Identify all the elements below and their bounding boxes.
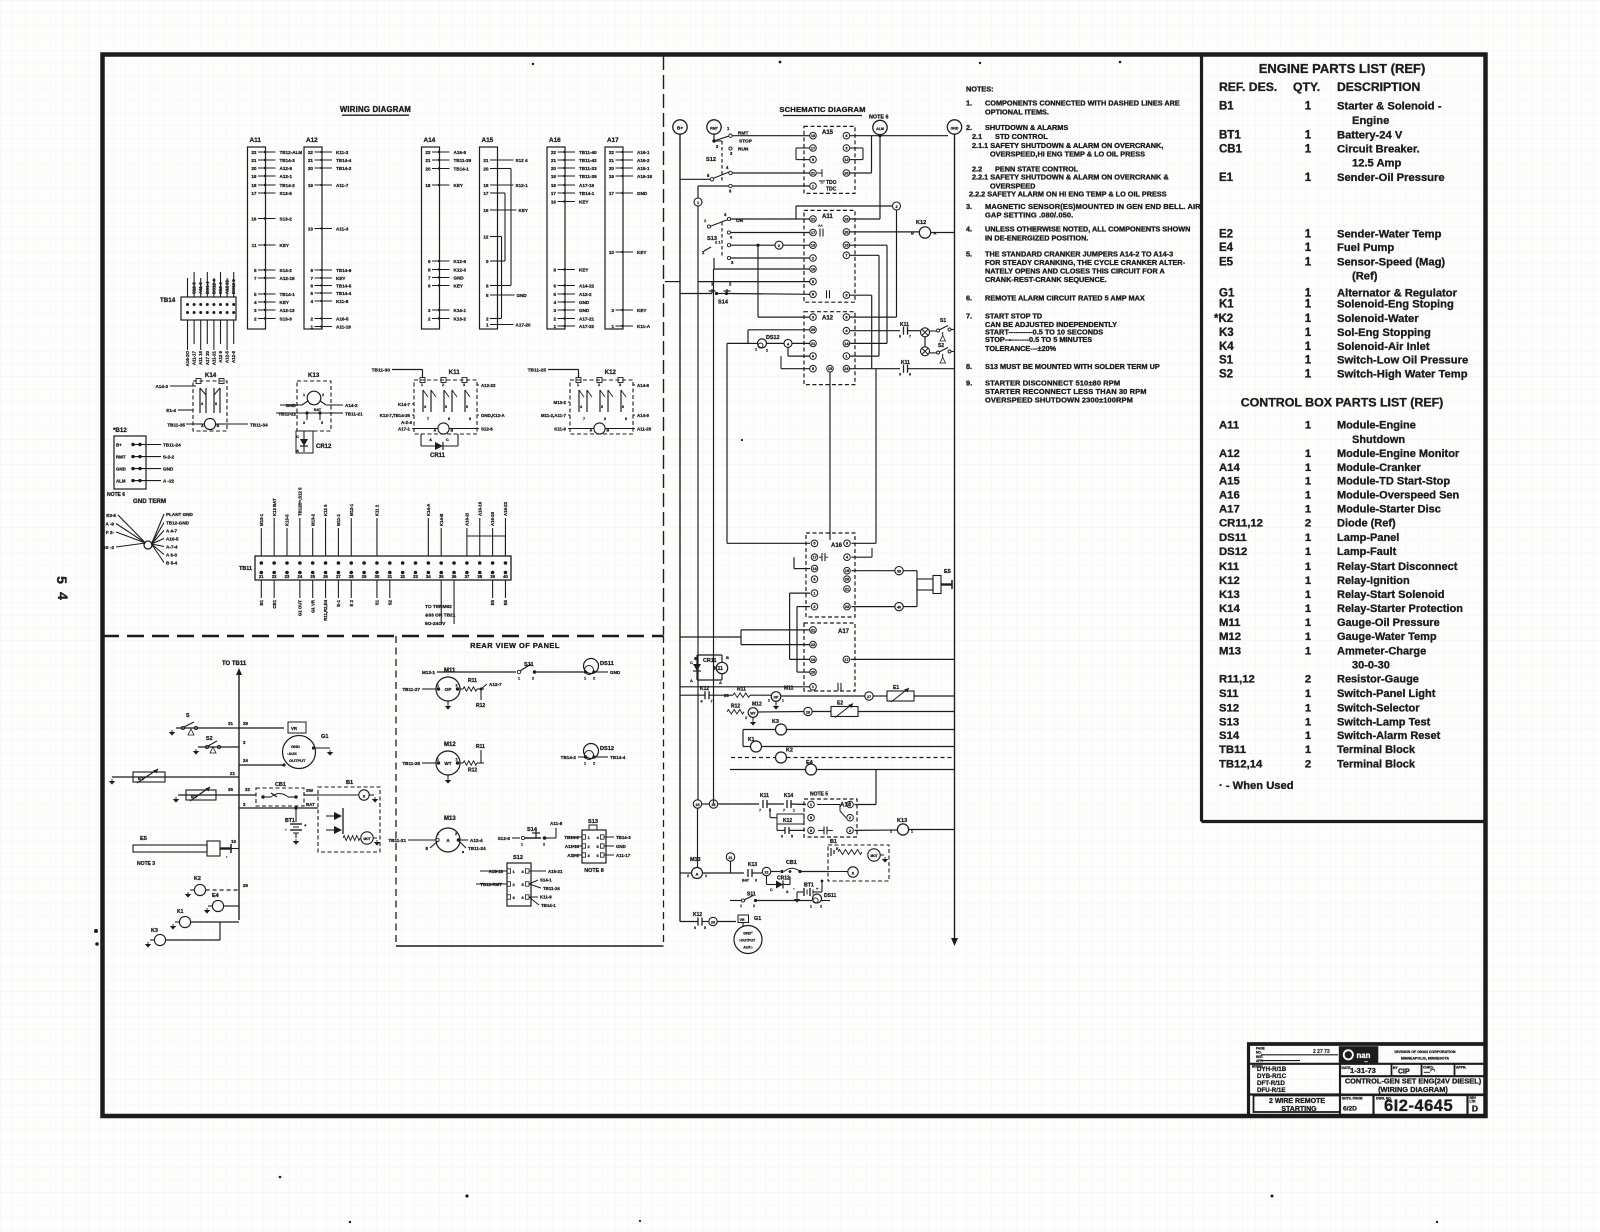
- svg-text:23: 23: [285, 574, 290, 579]
- svg-text:1: 1: [1305, 730, 1311, 742]
- svg-text:R11: R11: [737, 687, 746, 693]
- svg-text:TB11-40: TB11-40: [579, 150, 597, 155]
- svg-text:5: 5: [601, 405, 603, 409]
- svg-text:2: 2: [456, 684, 458, 688]
- svg-text:2: 2: [428, 316, 431, 321]
- svg-text:GND: GND: [579, 300, 590, 305]
- svg-text:G1 VR: G1 VR: [310, 599, 315, 613]
- when used footnote: [1219, 780, 1294, 792]
- wire A11 pin20 to relay K12: [850, 231, 919, 233]
- svg-text:GND: GND: [291, 744, 300, 749]
- svg-text:A15-18: A15-18: [489, 869, 504, 874]
- svg-text:Alternator & Regulator: Alternator & Regulator: [1337, 287, 1458, 299]
- svg-text:TB12-RMT: TB12-RMT: [480, 882, 502, 887]
- svg-text:DS12 2: DS12 2: [231, 279, 236, 294]
- node 39: [852, 567, 918, 575]
- svg-text:E5: E5: [140, 836, 147, 842]
- svg-text:S14: S14: [718, 300, 729, 306]
- svg-text:F 2-: F 2-: [106, 530, 115, 535]
- solenoid K2: [186, 876, 249, 897]
- switch S1 schematic: [930, 318, 955, 341]
- svg-text:Lamp-Panel: Lamp-Panel: [1337, 532, 1399, 544]
- title block bottom row: [1254, 1095, 1479, 1116]
- svg-text:A16-20: A16-20: [490, 511, 495, 526]
- svg-text:1: 1: [521, 843, 523, 847]
- svg-text:TB11-35: TB11-35: [167, 423, 185, 428]
- svg-text:34: 34: [426, 574, 431, 579]
- svg-text:DS -2: DS -2: [102, 545, 114, 550]
- svg-text:R12: R12: [731, 704, 740, 710]
- svg-text:1: 1: [1305, 228, 1312, 240]
- svg-text:S2: S2: [387, 599, 392, 605]
- svg-text:22: 22: [425, 150, 431, 155]
- starter B1: [318, 780, 380, 852]
- svg-text:5.: 5.: [966, 249, 972, 258]
- svg-text:21: 21: [483, 158, 489, 163]
- svg-text:Terminal Block: Terminal Block: [1337, 758, 1416, 770]
- svg-text:K12: K12: [693, 912, 702, 918]
- svg-text:Switch-Selector: Switch-Selector: [1337, 702, 1420, 714]
- svg-text:7: 7: [849, 802, 851, 807]
- svg-text:K12-3: K12-3: [454, 267, 467, 272]
- resistor R11 schematic: [733, 687, 771, 698]
- svg-text:KEY: KEY: [280, 243, 289, 248]
- solenoid K1: [171, 909, 239, 929]
- svg-text:1: 1: [1305, 603, 1311, 615]
- starter B1 schematic: [828, 839, 889, 881]
- svg-text:TB11-24: TB11-24: [163, 443, 181, 448]
- svg-text:2: 2: [1305, 517, 1311, 529]
- switch S12: [476, 855, 563, 908]
- svg-text:A11-17: A11-17: [192, 350, 197, 365]
- switch S11 schematic: [730, 892, 812, 909]
- node 22: [762, 867, 780, 875]
- svg-text:A11-17: A11-17: [616, 853, 631, 858]
- svg-text:A17-21: A17-21: [579, 316, 595, 321]
- svg-text:CB1: CB1: [272, 599, 277, 608]
- svg-text:B 5-4: B 5-4: [166, 561, 178, 566]
- svg-text:20: 20: [844, 170, 848, 175]
- terminal block TB11: [239, 487, 511, 627]
- svg-text:A 6-3: A 6-3: [166, 553, 178, 558]
- svg-text:3.: 3.: [966, 202, 972, 211]
- svg-text:TB14-4: TB14-4: [610, 755, 626, 760]
- svg-text:A14-9: A14-9: [637, 413, 650, 418]
- svg-text:1: 1: [1305, 717, 1311, 729]
- svg-text:S1: S1: [1219, 355, 1234, 367]
- svg-text:26: 26: [323, 574, 328, 579]
- svg-text:K13: K13: [1219, 589, 1240, 601]
- svg-text:7: 7: [711, 700, 713, 704]
- wire A11 pin16 feed: [714, 258, 810, 269]
- svg-text:DFT-R/1D: DFT-R/1D: [1257, 1080, 1285, 1087]
- wire ALM to A11 pin23: [850, 218, 880, 220]
- wire A17 pin21-22 feeds: [680, 630, 810, 645]
- svg-text:S12-8: S12-8: [192, 282, 197, 294]
- svg-text:S14: S14: [1219, 730, 1240, 742]
- svg-text:K12-7,TB14-26: K12-7,TB14-26: [380, 413, 411, 418]
- svg-text:A12: A12: [822, 316, 834, 322]
- svg-text:1: 1: [584, 762, 586, 766]
- svg-text:1: 1: [1305, 702, 1311, 714]
- svg-text:CR11,12: CR11,12: [1219, 517, 1263, 529]
- svg-text:TB14-3: TB14-3: [616, 835, 631, 840]
- svg-text:1: 1: [793, 809, 795, 813]
- svg-text:S14-2: S14-2: [280, 268, 293, 273]
- svg-text:REF. DES.: REF. DES.: [1219, 80, 1277, 94]
- svg-text:2.1: 2.1: [972, 132, 982, 141]
- svg-text:11: 11: [252, 243, 257, 248]
- svg-text:1: 1: [303, 393, 305, 397]
- svg-text:E2: E2: [1219, 228, 1233, 240]
- svg-text:TB14-2: TB14-2: [561, 755, 577, 760]
- svg-text:*B12: *B12: [113, 427, 127, 434]
- svg-text:APPR.: APPR.: [1456, 1066, 1466, 1070]
- svg-text:M12: M12: [444, 742, 456, 748]
- svg-text:DIVISION OF ONAN CORPORATION: DIVISION OF ONAN CORPORATION: [1394, 1050, 1455, 1054]
- svg-text:K12: K12: [700, 686, 709, 692]
- svg-text:1: 1: [1305, 589, 1311, 601]
- ammeter M13: [388, 816, 486, 852]
- svg-text:K1: K1: [177, 909, 184, 915]
- svg-text:K11: K11: [760, 793, 769, 799]
- svg-text:1: 1: [755, 348, 757, 352]
- svg-text:TB11-30: TB11-30: [372, 368, 391, 374]
- svg-text:6: 6: [622, 405, 624, 409]
- svg-text:K11-9: K11-9: [554, 427, 566, 432]
- svg-text:2: 2: [486, 316, 489, 321]
- svg-text:Switch-Low Oil Pressure: Switch-Low Oil Pressure: [1337, 355, 1468, 367]
- wiring diagram title: [340, 105, 411, 115]
- svg-text:6: 6: [553, 283, 556, 288]
- engine parts list rows: [1214, 101, 1468, 381]
- svg-text:9: 9: [428, 259, 431, 264]
- node B+: [673, 120, 687, 134]
- svg-text:A16-1: A16-1: [637, 150, 650, 155]
- svg-text:K14-B: K14-B: [439, 514, 444, 526]
- svg-text:K14-7: K14-7: [398, 402, 411, 407]
- svg-text:A: A: [719, 680, 722, 685]
- svg-text:18: 18: [251, 183, 257, 188]
- svg-text:GND: GND: [116, 467, 126, 472]
- svg-text:6: 6: [466, 405, 468, 409]
- svg-text:3: 3: [899, 373, 901, 377]
- title block company text: [1394, 1050, 1455, 1061]
- svg-text:˄˄: ˄˄: [818, 223, 823, 228]
- svg-text:A14: A14: [424, 137, 436, 144]
- svg-text:S13: S13: [1219, 717, 1239, 729]
- svg-text:A12-1: A12-1: [280, 174, 293, 179]
- bus node-1 vertical: [694, 186, 702, 800]
- svg-text:A: A: [434, 429, 437, 433]
- svg-text:7: 7: [783, 809, 785, 813]
- svg-text:SHUTDOWN & ALARMS: SHUTDOWN & ALARMS: [985, 123, 1068, 132]
- svg-text:G1 OUT: G1 OUT: [297, 600, 302, 616]
- svg-text:B: B: [217, 424, 220, 428]
- svg-text:1: 1: [553, 324, 556, 329]
- node RMT: [707, 120, 721, 134]
- svg-text:27: 27: [336, 574, 341, 579]
- svg-text:ENGINE PARTS LIST (REF): ENGINE PARTS LIST (REF): [1259, 61, 1426, 76]
- svg-text:3: 3: [619, 383, 621, 387]
- svg-text:DESCRIPTION: DESCRIPTION: [1337, 80, 1420, 94]
- svg-text:1: 1: [611, 324, 614, 329]
- svg-text:21: 21: [551, 158, 557, 163]
- svg-text:D: D: [1472, 1104, 1478, 1114]
- contact K13 bat: [742, 862, 762, 883]
- module A16: [806, 533, 855, 617]
- module A17: [804, 623, 855, 691]
- onan logo: [1339, 1046, 1379, 1064]
- svg-text:19: 19: [308, 183, 314, 188]
- svg-text:A: A: [786, 890, 789, 894]
- switch S1: [170, 713, 249, 735]
- svg-text:1: 1: [1305, 575, 1311, 587]
- contact K12 ignition: [680, 873, 709, 930]
- node 24: [693, 800, 701, 868]
- solenoid K1 schematic: [743, 737, 955, 752]
- svg-text:E2: E2: [191, 794, 197, 799]
- svg-text:M13-1: M13-1: [422, 670, 435, 675]
- svg-text:R11,R2,E4: R11,R2,E4: [323, 599, 328, 620]
- svg-text:A17: A17: [607, 137, 619, 144]
- svg-text:A12-18: A12-18: [280, 276, 296, 281]
- svg-text:6/2D: 6/2D: [1343, 1106, 1357, 1113]
- svg-text:Switch-Panel Light: Switch-Panel Light: [1337, 688, 1436, 700]
- module A14 schematic: [804, 792, 857, 838]
- svg-text:Solenoid-Eng Stoping: Solenoid-Eng Stoping: [1337, 299, 1454, 311]
- wire A16 pin18 elbow: [794, 557, 810, 568]
- svg-text:GND: GND: [454, 275, 465, 280]
- svg-text:BT1: BT1: [1219, 129, 1241, 141]
- svg-text:IN DE-ENERGIZED POSITION.: IN DE-ENERGIZED POSITION.: [985, 233, 1088, 242]
- svg-text:1: 1: [1305, 242, 1312, 254]
- resistor R12 schematic: [714, 704, 745, 714]
- relay K14: [155, 372, 268, 431]
- speed sensor E5: [133, 836, 239, 867]
- svg-text:35: 35: [439, 574, 444, 579]
- switch S11: [422, 662, 583, 681]
- svg-text:GND: GND: [517, 293, 528, 298]
- sensor E5 schematic: [917, 569, 952, 607]
- relay K12: [528, 368, 652, 435]
- svg-text:3: 3: [781, 835, 783, 839]
- svg-text:3: 3: [254, 308, 257, 313]
- svg-text:OUTPUT: OUTPUT: [289, 758, 306, 763]
- svg-text:5: 5: [425, 846, 428, 851]
- svg-text:8: 8: [254, 268, 257, 273]
- svg-text:A11-3: A11-3: [336, 226, 349, 231]
- svg-text:SCHEMATIC DIAGRAM: SCHEMATIC DIAGRAM: [779, 105, 865, 114]
- wire A17 pin17 to GND bus: [851, 658, 955, 660]
- svg-text:17: 17: [844, 657, 848, 662]
- svg-text:M12: M12: [752, 702, 762, 708]
- svg-text:E1-4: E1-4: [166, 408, 176, 413]
- node ALM: [869, 115, 888, 220]
- svg-text:MOT: MOT: [870, 854, 877, 858]
- svg-text:REAR VIEW OF PANEL: REAR VIEW OF PANEL: [470, 641, 560, 650]
- svg-text:28: 28: [349, 574, 354, 579]
- svg-text:A: A: [696, 872, 699, 877]
- svg-text:2: 2: [753, 904, 755, 908]
- svg-text:KEY: KEY: [579, 267, 588, 272]
- svg-text:KEY: KEY: [519, 208, 528, 213]
- svg-text:9: 9: [625, 417, 627, 421]
- svg-text:5: 5: [704, 926, 706, 930]
- svg-text:4: 4: [580, 405, 582, 409]
- svg-text:22: 22: [765, 871, 769, 875]
- svg-text:AUX○: AUX○: [743, 946, 753, 950]
- node 26: [702, 800, 759, 808]
- svg-text:5: 5: [486, 293, 489, 298]
- svg-text:DYB-R/1C: DYB-R/1C: [1257, 1073, 1287, 1080]
- svg-text:VR: VR: [291, 726, 298, 731]
- junction lamp S2: [916, 347, 930, 356]
- svg-text:2: 2: [1305, 674, 1311, 686]
- svg-text:4.: 4.: [966, 225, 972, 234]
- svg-text:Resistor-Gauge: Resistor-Gauge: [1337, 674, 1419, 686]
- svg-text:Sol-Eng Stopping: Sol-Eng Stopping: [1337, 327, 1431, 339]
- svg-text:ALM: ALM: [876, 127, 884, 131]
- svg-text:B+: B+: [677, 126, 683, 132]
- svg-text:*K2: *K2: [1214, 313, 1233, 325]
- svg-text:CR11: CR11: [430, 453, 446, 459]
- svg-text:M13: M13: [444, 816, 456, 822]
- svg-text:R11: R11: [468, 678, 477, 684]
- svg-text:WT: WT: [750, 712, 756, 716]
- svg-text:S13-4: S13-4: [218, 282, 223, 294]
- svg-text:5: 5: [791, 835, 793, 839]
- circuit breaker CB1: [256, 782, 318, 806]
- svg-text:K14-1: K14-1: [454, 308, 467, 313]
- svg-text:Sensor-Speed (Mag): Sensor-Speed (Mag): [1337, 257, 1445, 269]
- svg-text:A: A: [690, 678, 693, 683]
- svg-text:CR12: CR12: [316, 444, 332, 450]
- svg-text:26: 26: [228, 787, 233, 792]
- svg-text:A17: A17: [1219, 504, 1240, 516]
- svg-text:TB11: TB11: [1219, 744, 1246, 756]
- svg-text:1: 1: [1305, 489, 1311, 501]
- svg-text:TB14-2: TB14-2: [336, 166, 352, 171]
- svg-text:GND: GND: [951, 127, 959, 131]
- svg-text:E1: E1: [138, 776, 144, 781]
- svg-text:1: 1: [1305, 327, 1312, 339]
- svg-text:1: 1: [486, 322, 489, 327]
- svg-text:1: 1: [1305, 561, 1311, 573]
- svg-text:2: 2: [310, 316, 313, 321]
- svg-text:M11: M11: [444, 668, 456, 674]
- svg-text:E-1: E-1: [336, 599, 341, 606]
- svg-text:6I2-4645: 6I2-4645: [1384, 1097, 1453, 1115]
- svg-text:+: +: [304, 823, 307, 828]
- svg-text:32: 32: [400, 574, 405, 579]
- svg-text:CB1: CB1: [275, 782, 286, 788]
- svg-text:TB14-1: TB14-1: [579, 191, 595, 196]
- svg-text:20: 20: [811, 670, 815, 675]
- svg-text:38: 38: [477, 574, 482, 579]
- svg-text:E5: E5: [1219, 257, 1234, 269]
- svg-text:K3: K3: [1219, 327, 1234, 339]
- svg-text:A: A: [429, 438, 432, 442]
- svg-text:CR11: CR11: [703, 658, 716, 664]
- svg-text:9: 9: [469, 417, 471, 421]
- svg-text:4: 4: [701, 700, 703, 704]
- fuel pump E4 schematic: [730, 760, 955, 775]
- svg-text:5: 5: [445, 405, 447, 409]
- svg-text:A17-22: A17-22: [579, 324, 595, 329]
- svg-text:M13-1: M13-1: [259, 513, 264, 526]
- svg-text:1: 1: [518, 677, 520, 681]
- svg-text:22: 22: [551, 150, 557, 155]
- svg-text:E 2: E 2: [349, 599, 354, 606]
- solenoid K3 schematic: [743, 719, 955, 747]
- svg-text:B1: B1: [1219, 101, 1234, 113]
- svg-text:A15: A15: [822, 130, 834, 136]
- svg-text:31: 31: [228, 721, 233, 726]
- svg-text:A12-5: A12-5: [225, 350, 230, 363]
- control box parts list title: [1241, 396, 1444, 410]
- svg-text:S2: S2: [206, 736, 213, 742]
- battery BT1 schematic: [793, 880, 823, 902]
- svg-text:S12: S12: [513, 855, 523, 861]
- svg-text:1: 1: [1305, 476, 1311, 488]
- svg-text:1: 1: [1305, 369, 1312, 381]
- gauge M12 schematic: [745, 702, 804, 726]
- svg-text:TB14-1: TB14-1: [454, 166, 470, 171]
- svg-text:1: 1: [697, 201, 699, 205]
- svg-text:1: 1: [782, 699, 784, 703]
- svg-text:E2: E2: [837, 701, 843, 707]
- svg-text:DS12: DS12: [600, 746, 614, 752]
- node 21: [726, 853, 734, 873]
- svg-text:22: 22: [272, 574, 277, 579]
- svg-text:TB12,14: TB12,14: [1219, 758, 1263, 770]
- svg-text:18: 18: [425, 183, 431, 188]
- svg-text:TO TB11: TO TB11: [222, 661, 247, 667]
- bus GND vertical: [951, 134, 958, 946]
- svg-text:WT: WT: [444, 761, 451, 766]
- svg-text:1: 1: [421, 383, 423, 387]
- svg-text:6: 6: [428, 283, 431, 288]
- parts list box: [1202, 56, 1487, 822]
- svg-text:K: K: [852, 872, 855, 876]
- svg-text:A -22: A -22: [163, 479, 175, 484]
- svg-text:S: S: [363, 795, 366, 799]
- svg-text:1-31-73: 1-31-73: [1350, 1066, 1376, 1075]
- svg-text:8.: 8.: [966, 362, 972, 371]
- svg-text:1: 1: [1305, 744, 1311, 756]
- switch S14: [498, 821, 563, 847]
- svg-text:5: 5: [321, 421, 323, 425]
- svg-text:K12: K12: [916, 220, 926, 226]
- svg-text:KEY: KEY: [579, 199, 588, 204]
- svg-text:2: 2: [322, 393, 324, 397]
- svg-text:Starter & Solenoid -: Starter & Solenoid -: [1337, 101, 1442, 113]
- svg-text:GND°: GND°: [743, 932, 753, 936]
- svg-text:DS11: DS11: [824, 893, 836, 899]
- svg-text:OP: OP: [445, 687, 452, 692]
- svg-text:E1: E1: [1219, 172, 1234, 184]
- svg-text:C: C: [296, 435, 299, 439]
- connector A15: [480, 137, 532, 329]
- switch S2 schematic: [930, 343, 955, 363]
- svg-text:20: 20: [483, 166, 489, 171]
- svg-text:K13: K13: [897, 818, 907, 824]
- svg-text:1: 1: [740, 904, 742, 908]
- node 4: [781, 339, 810, 368]
- svg-text:1: 1: [1305, 688, 1311, 700]
- lamp DS11 schematic: [810, 893, 836, 909]
